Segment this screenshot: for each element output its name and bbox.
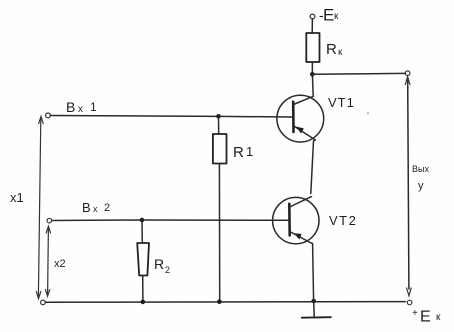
wire node C to VT2 base — [142, 219, 289, 221]
VT1 emitter arrow (PNP) — [296, 127, 304, 134]
transistor VT1 — [277, 74, 324, 193]
svg-text:к: к — [334, 11, 339, 22]
terminal output bottom right — [407, 300, 412, 305]
terminal -Ek (top) — [310, 14, 315, 19]
svg-text:В: В — [82, 200, 91, 215]
VT1 collector — [294, 74, 314, 104]
ground — [313, 301, 316, 316]
VT1 circle — [277, 95, 324, 142]
svg-text:Вых: Вых — [412, 164, 429, 174]
wire R2 to bottom rail — [142, 276, 144, 302]
svg-text:VT1: VT1 — [328, 95, 355, 110]
svg-text:Е: Е — [323, 6, 334, 25]
VT1 base bar — [292, 102, 295, 132]
speck — [367, 112, 369, 114]
arrow up x1 — [39, 116, 44, 123]
VT2 circle — [273, 197, 319, 243]
VT2 collector — [290, 197, 312, 207]
wire top terminal to Rk — [311, 19, 313, 33]
dimension line x1 — [38, 118, 40, 296]
svg-text:к: к — [338, 47, 343, 58]
wire Bx2 to node C — [52, 219, 140, 222]
svg-text:2: 2 — [104, 202, 110, 214]
terminal Bx2 — [47, 218, 52, 223]
svg-text:VT2: VT2 — [329, 213, 357, 228]
VT2 base bar — [288, 204, 291, 236]
svg-text:х1: х1 — [10, 190, 24, 205]
wire node B to R1 — [218, 116, 220, 134]
wire Rk to node A — [311, 62, 313, 74]
svg-text:х: х — [93, 204, 98, 214]
terminal output top right — [405, 71, 410, 76]
terminal Bx1 — [46, 113, 51, 118]
wire node A to right terminal — [312, 72, 405, 75]
arrow down x2 — [45, 290, 49, 297]
VT2 emitter — [290, 232, 314, 301]
dimension line x2 — [47, 228, 50, 295]
arrow up (output line) — [405, 77, 410, 85]
node D (R2 / rail) — [141, 300, 146, 305]
resistor Rk — [306, 33, 319, 62]
svg-text:1: 1 — [246, 144, 253, 159]
wire R1 to bottom rail — [218, 164, 220, 302]
wire output vertical line — [408, 80, 409, 289]
resistor R2 — [137, 243, 149, 276]
svg-text:х: х — [78, 104, 83, 115]
svg-text:R: R — [154, 256, 164, 272]
terminal bottom left — [41, 300, 46, 305]
VT2 emitter arrow (PNP) — [294, 233, 302, 239]
node A (collector VT1 / Rk / output) — [310, 72, 315, 77]
node E (R1 / rail) — [217, 299, 222, 304]
transistor VT2 — [273, 197, 319, 301]
svg-text:к: к — [436, 312, 441, 323]
svg-text:+: + — [412, 308, 418, 319]
svg-text:Е: Е — [420, 309, 431, 326]
svg-text:В: В — [66, 99, 75, 115]
svg-text:2: 2 — [165, 265, 170, 275]
arrow down x1 — [36, 292, 41, 299]
node F (emitter VT2 / rail / ground) — [311, 299, 316, 304]
arrow down (output line) — [407, 288, 412, 296]
bottom rail wire — [45, 301, 405, 304]
node C (Bx2 / R2 / base VT2) — [140, 218, 145, 223]
arrow up x2 — [46, 226, 50, 233]
svg-text:у: у — [418, 180, 424, 192]
svg-text:1: 1 — [90, 100, 97, 114]
VT1 emitter — [294, 126, 316, 194]
node B (Bx1 / R1 / base VT1) — [216, 114, 221, 119]
wire Bx1 to node B — [51, 115, 217, 118]
svg-text:R: R — [233, 144, 244, 161]
svg-text:R: R — [326, 41, 337, 58]
svg-text:х2: х2 — [54, 258, 66, 270]
wire node B to VT1 base — [219, 115, 293, 118]
wire node C to R2 — [141, 220, 143, 243]
resistor R1 — [213, 134, 227, 164]
